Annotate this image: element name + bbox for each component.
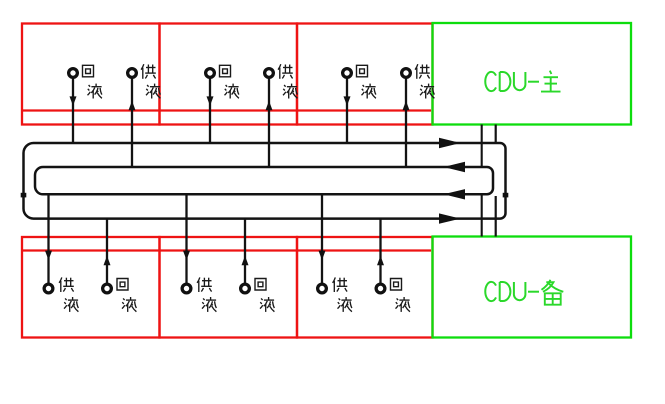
junction tick right [503,193,509,198]
arrow down on supply drop bottom-2 [183,251,190,260]
junction tick left [21,193,27,198]
arrow up on return riser bottom-1 [104,256,111,265]
quick coupling return top-1 [69,69,78,78]
wire return drop top-1 [72,78,74,143]
server cabinet box bottom-3 [297,237,433,338]
server cabinet box top-1 [22,24,160,125]
quick coupling supply bottom-3 [318,284,327,293]
label return-liquid top-3 [357,65,376,98]
wire return drop top-2 [209,78,211,143]
CDU backup unit box [433,237,632,338]
text CDU-main [485,71,560,92]
quick coupling return bottom-3 [376,284,385,293]
quick coupling return top-3 [343,69,352,78]
flow arrow inner loop top, pointing left [444,162,466,172]
text CDU-backup [485,280,563,305]
wire supply drop bottom-1 [47,194,49,283]
inner supply pipe loop [35,167,493,194]
riser pipe inner supply loop to CDU-backup [481,194,483,236]
wire supply drop bottom-2 [185,194,187,283]
wire supply riser top-2 [268,78,270,167]
arrow down on return drop top-1 [70,96,77,105]
quick coupling return bottom-1 [103,284,112,293]
label return-liquid bottom-3 [391,279,410,312]
arrow up on supply riser top-3 [403,101,410,110]
quick coupling return top-2 [206,69,215,78]
label supply-liquid bottom-3 [333,277,352,312]
label supply-liquid top-3 [415,64,434,98]
flow arrow outer loop top, pointing right [439,138,461,148]
arrow down on return drop top-2 [207,96,214,105]
server cabinet box top-2 [160,24,298,125]
arrow down on return drop top-3 [344,96,351,105]
arrow up on return riser bottom-3 [377,256,384,265]
server cabinet box top-3 [297,24,433,125]
label supply-liquid bottom-2 [197,277,216,312]
wire return drop top-3 [346,78,348,143]
arrow up on return riser bottom-2 [242,256,249,265]
label return-liquid top-2 [220,65,239,98]
quick coupling return bottom-2 [241,284,250,293]
quick coupling supply top-2 [265,69,274,78]
flow arrow outer loop bottom, pointing right [439,213,461,223]
quick coupling supply top-1 [128,69,137,78]
server cabinet box bottom-1 [22,237,160,338]
wire supply drop bottom-3 [321,194,323,283]
top row plenum line [22,109,431,111]
quick coupling supply bottom-1 [44,284,53,293]
quick coupling supply bottom-2 [182,284,191,293]
label return-liquid top-1 [83,65,102,98]
wire return riser bottom-3 [379,219,381,284]
wire return riser bottom-2 [244,219,246,284]
wire supply riser top-1 [131,78,133,167]
label supply-liquid top-1 [141,64,160,98]
outer return pipe loop [24,143,506,219]
quick coupling supply top-3 [402,69,411,78]
label supply-liquid bottom-1 [59,277,78,312]
bottom row plenum line [22,249,431,251]
CDU main unit box [433,23,632,125]
wire supply riser top-3 [405,78,407,167]
label supply-liquid top-2 [278,64,297,98]
riser pipe CDU-main to inner supply loop [481,125,483,167]
arrow down on supply drop bottom-3 [319,251,326,260]
riser pipe CDU-main to outer return loop [495,125,497,144]
arrow up on supply riser top-1 [129,101,136,110]
label return-liquid bottom-2 [255,279,274,312]
arrow up on supply riser top-2 [266,101,273,110]
arrow down on supply drop bottom-1 [45,251,52,260]
server cabinet box bottom-2 [160,237,298,338]
wire return riser bottom-1 [106,219,108,284]
riser pipe loop end to CDU-backup [495,196,497,237]
label return-liquid bottom-1 [117,279,136,312]
flow arrow inner loop bottom, pointing left [444,189,466,199]
